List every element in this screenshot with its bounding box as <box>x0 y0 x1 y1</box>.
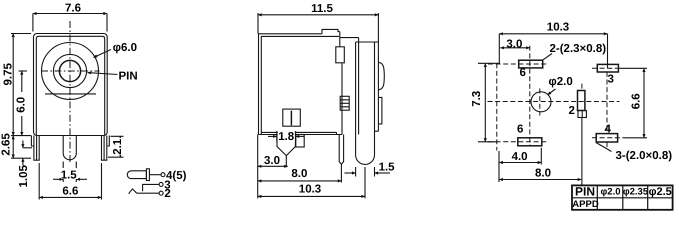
svg-text:3: 3 <box>608 73 614 85</box>
svg-text:2: 2 <box>569 105 575 117</box>
svg-text:3-(2.0×0.8): 3-(2.0×0.8) <box>616 150 673 162</box>
svg-text:3.0: 3.0 <box>264 155 280 167</box>
svg-text:2.1: 2.1 <box>112 138 124 155</box>
svg-text:10.3: 10.3 <box>299 184 321 196</box>
svg-text:6.0: 6.0 <box>15 97 27 113</box>
svg-text:4: 4 <box>605 124 612 136</box>
svg-text:2.65: 2.65 <box>1 133 13 156</box>
svg-text:3.0: 3.0 <box>506 38 522 50</box>
svg-text:6.6: 6.6 <box>630 93 642 109</box>
svg-text:6.6: 6.6 <box>62 185 78 197</box>
svg-text:1.5: 1.5 <box>61 170 78 182</box>
svg-text:φ2.0: φ2.0 <box>549 76 573 88</box>
svg-text:PIN: PIN <box>575 185 595 199</box>
svg-text:φ2.35: φ2.35 <box>623 187 649 198</box>
svg-text:APPD: APPD <box>572 199 599 210</box>
svg-text:6: 6 <box>517 124 523 136</box>
svg-text:9.75: 9.75 <box>3 63 15 86</box>
svg-text:10.3: 10.3 <box>547 22 569 34</box>
svg-text:11.5: 11.5 <box>311 3 333 15</box>
svg-text:4.0: 4.0 <box>512 151 528 163</box>
svg-text:1.8: 1.8 <box>278 131 295 143</box>
svg-text:PIN: PIN <box>119 71 138 83</box>
svg-text:φ6.0: φ6.0 <box>113 42 137 54</box>
svg-text:1.5: 1.5 <box>379 162 396 174</box>
svg-text:6: 6 <box>520 67 526 79</box>
svg-text:2: 2 <box>164 188 170 200</box>
svg-text:φ2.5: φ2.5 <box>649 186 672 198</box>
svg-text:φ2.0: φ2.0 <box>600 187 620 198</box>
svg-text:1.05: 1.05 <box>18 165 30 188</box>
svg-text:2-(2.3×0.8): 2-(2.3×0.8) <box>550 43 607 55</box>
svg-text:7.3: 7.3 <box>471 91 483 107</box>
svg-text:8.0: 8.0 <box>535 168 551 180</box>
svg-text:7.6: 7.6 <box>65 3 81 15</box>
svg-text:8.0: 8.0 <box>291 168 307 180</box>
